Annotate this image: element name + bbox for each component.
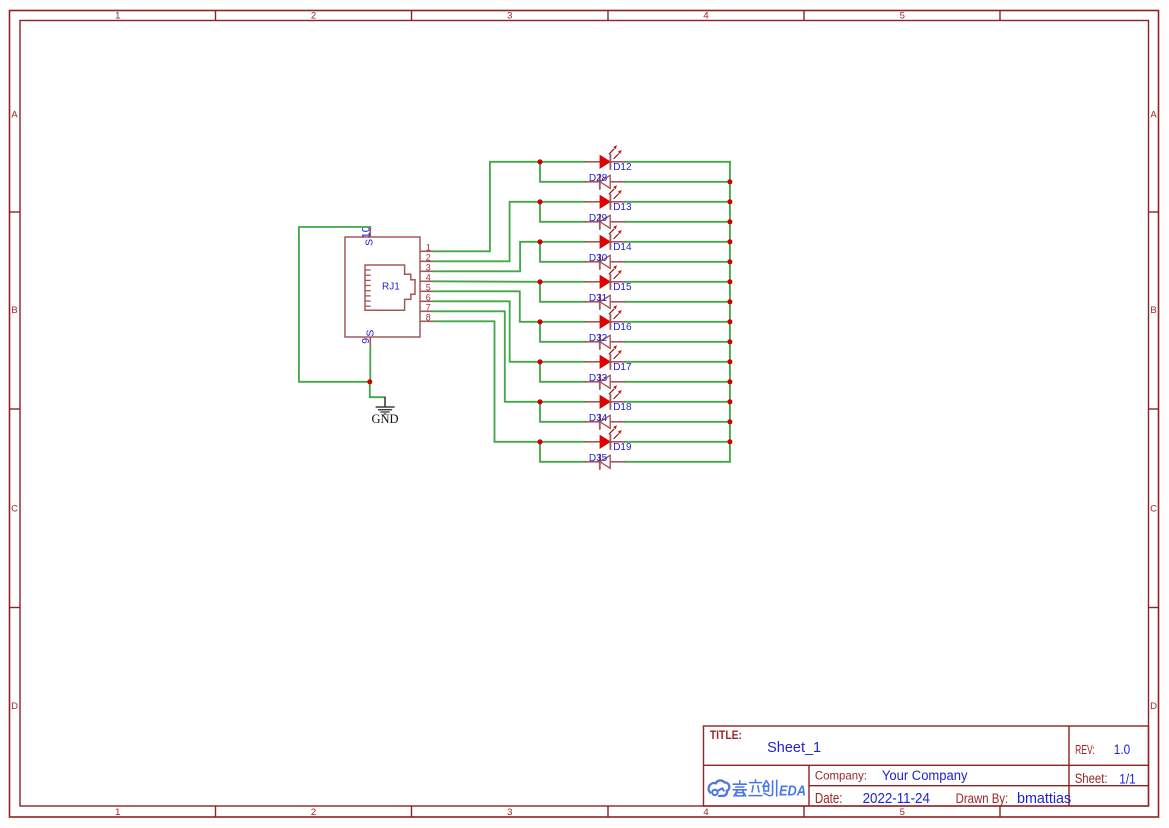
svg-text:Your Company: Your Company [882,768,968,783]
svg-text:D12: D12 [613,162,632,173]
wire pair 5 left link [540,322,585,342]
svg-text:D33: D33 [589,373,608,384]
RJ1 shield pin 9 (bottom) [360,330,376,347]
diode D35 label [589,453,608,464]
svg-text:A: A [1150,110,1157,121]
junction dot at GND node [367,379,372,384]
svg-text:GND: GND [371,412,398,426]
wire pair 8 left link [540,442,585,462]
junction dots at pair left nodes [537,159,542,444]
svg-text:D19: D19 [613,442,632,453]
LED D13 [585,186,625,210]
svg-text:8: 8 [426,313,431,323]
diode D34 (reverse) [585,414,625,430]
svg-text:Company:: Company: [815,770,867,783]
wire RJ1 pin 8 to LED pair 8 [434,321,540,442]
svg-text:D31: D31 [589,293,608,304]
svg-text:1.0: 1.0 [1114,741,1131,757]
title block TITLE label [710,728,742,742]
svg-text:D16: D16 [613,322,632,333]
diode D30 label [589,253,608,264]
svg-text:Date:: Date: [815,790,843,807]
LED D15 label [613,282,632,293]
svg-text:5: 5 [900,807,905,818]
svg-text:D15: D15 [613,282,632,293]
LED D12 label [613,162,632,173]
svg-text:D28: D28 [589,173,608,184]
column labels top 1-5 [115,11,905,22]
svg-text:1: 1 [115,11,120,22]
diode D29 (reverse) [585,214,625,230]
svg-text:EDA: EDA [779,784,806,800]
LED D18 [585,386,625,410]
wire pair 4 left link [540,282,585,302]
svg-text:D30: D30 [589,253,608,264]
title block outline [704,726,1149,806]
diode D31 (reverse) [585,294,625,310]
svg-text:D35: D35 [589,453,608,464]
Company value Your Company [882,768,968,783]
svg-text:D14: D14 [613,242,632,253]
svg-text:D18: D18 [613,402,632,413]
row tick marks left [10,212,21,608]
wire RJ1 pin 7 to LED pair 7 [434,311,540,402]
diode D32 label [589,333,608,344]
wire pair 5 right links [625,322,730,342]
RJ1 pin 8 [420,313,434,323]
svg-text:C: C [11,503,18,514]
LED D14 label [613,242,632,253]
diode D31 label [589,293,608,304]
RJ1 pin 6 [420,293,434,303]
diode D28 (reverse) [585,174,625,190]
sheet title value Sheet_1 [767,740,821,756]
Company label [815,770,867,783]
LED D14 [585,226,625,250]
LED D17 [585,346,625,370]
svg-text:Sheet:: Sheet: [1075,771,1108,786]
diode D34 label [589,413,608,424]
row labels left A-D [11,110,18,712]
JLCEDA logo text [733,780,806,800]
RJ1 pin 4 [420,273,434,283]
svg-text:3: 3 [507,11,512,22]
wire RJ1 pin 4 to LED pair 4 [434,280,540,283]
Drawn By label [956,791,1009,806]
wire pair 6 left link [540,362,585,382]
row labels right A-D [1150,110,1157,712]
column tick marks top [216,11,1001,21]
svg-text:A: A [11,110,18,121]
svg-text:S: S [364,330,376,337]
svg-text:5: 5 [900,11,905,22]
diode D33 (reverse) [585,374,625,390]
svg-text:D17: D17 [613,362,632,373]
wire shield pin9 to junction [369,347,371,382]
wire RJ1 pin 6 to LED pair 6 [434,301,540,362]
svg-text:3: 3 [426,263,431,273]
wire pair 7 right links [625,402,730,422]
wire pair 3 right links [625,242,730,262]
svg-text:D13: D13 [613,202,632,213]
column labels bottom 1-5 [115,807,905,818]
wire pair 1 left link [540,162,585,182]
connector RJ1 jack symbol [365,265,415,310]
wire RJ1 pin 3 to LED pair 3 [434,242,540,271]
diode D33 label [589,373,608,384]
diode D35 (reverse) [585,454,625,470]
LED D18 label [613,402,632,413]
svg-text:4: 4 [703,11,708,22]
wire RJ1 pin 5 to LED pair 5 [434,291,540,322]
column tick marks bottom [216,806,1001,817]
svg-text:D32: D32 [589,333,608,344]
wire right bus vertical [729,162,731,462]
svg-text:4: 4 [426,273,431,283]
svg-text:Sheet_1: Sheet_1 [767,740,821,756]
ground GND [376,397,395,414]
row tick marks right [1149,212,1159,608]
LED D16 [585,306,625,330]
wire pair 4 right links [625,282,730,302]
svg-text:3: 3 [507,807,512,818]
LED D12 [585,146,625,170]
JLCEDA logo cloud icon [709,780,730,796]
svg-text:2022-11-24: 2022-11-24 [863,791,930,807]
ground GND text [371,412,398,426]
wire pair 8 right links [625,442,730,462]
LED D15 [585,266,625,290]
svg-text:2: 2 [311,11,316,22]
connector RJ1 body [345,237,420,337]
diode D28 label [589,173,608,184]
REV label [1075,743,1095,757]
RJ1 pin 7 [420,303,434,313]
wire pair 2 right links [625,202,730,222]
Drawn By value bmattias [1017,790,1071,807]
svg-text:2: 2 [311,807,316,818]
diode D30 (reverse) [585,254,625,270]
svg-text:C: C [1150,503,1157,514]
LED D19 [585,426,625,450]
wire pair 2 left link [540,202,585,222]
wire junction to GND [370,382,385,397]
LED D13 label [613,202,632,213]
wire RJ1 pin 1 to LED pair 1 [434,162,540,252]
connector RJ1 refdes [382,282,400,293]
junction dots on right bus [727,179,732,444]
diode D32 (reverse) [585,334,625,350]
RJ1 pin 2 [420,253,434,263]
LED D19 label [613,442,632,453]
RJ1 pin 1 [420,243,434,253]
svg-text:S: S [364,239,376,246]
RJ1 pin 5 [420,283,434,293]
svg-text:9: 9 [360,338,372,344]
wire pair 1 right links [625,162,730,182]
svg-text:6: 6 [426,293,431,303]
svg-text:1: 1 [426,243,431,253]
svg-text:D29: D29 [589,213,608,224]
diode D29 label [589,213,608,224]
svg-text:D: D [1150,701,1157,712]
svg-text:4: 4 [703,807,708,818]
svg-text:RJ1: RJ1 [382,282,400,293]
svg-text:D: D [11,701,18,712]
LED D17 label [613,362,632,373]
wire pair 6 right links [625,362,730,382]
svg-text:2: 2 [426,253,431,263]
LED D16 label [613,322,632,333]
RJ1 shield pin 10 (top) [360,226,375,246]
svg-text:Drawn By:: Drawn By: [956,791,1009,806]
Date label [815,790,843,807]
REV value 1.0 [1114,741,1131,757]
wire shield loop left [299,227,370,382]
svg-text:5: 5 [426,283,431,293]
wire RJ1 pin 2 to LED pair 2 [434,202,540,261]
svg-text:7: 7 [426,303,431,313]
svg-text:D34: D34 [589,413,608,424]
svg-text:B: B [1150,305,1156,316]
wire pair 3 left link [540,242,585,262]
svg-text:1: 1 [115,807,120,818]
RJ1 pin 3 [420,263,434,273]
svg-text:1/1: 1/1 [1119,772,1135,787]
svg-text:REV:: REV: [1075,743,1095,757]
Sheet value 1/1 [1119,772,1135,787]
Date value 2022-11-24 [863,791,930,807]
svg-text:B: B [11,305,17,316]
wire pair 7 left link [540,402,585,422]
svg-text:TITLE:: TITLE: [710,728,742,742]
Sheet label [1075,771,1108,786]
svg-text:bmattias: bmattias [1017,790,1071,807]
